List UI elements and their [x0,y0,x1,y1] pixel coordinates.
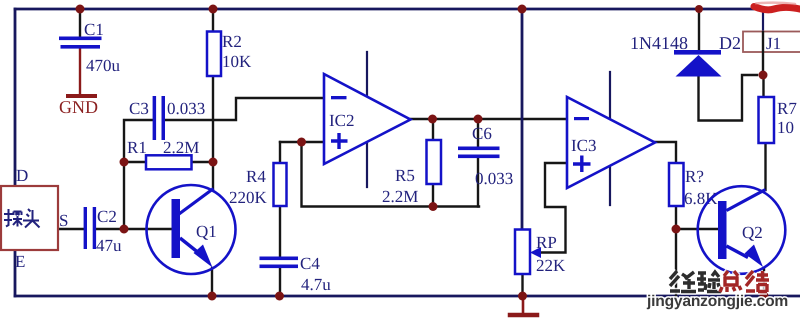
svg-text:R?: R? [685,167,704,186]
wire probe S to C2 [57,228,84,230]
探 glyph [4,209,22,227]
wire R7 top lead [762,75,764,97]
node Q1 emitter rail [208,292,217,301]
node Q1 base [120,225,129,234]
svg-text:0.033: 0.033 [475,169,513,188]
wire R? bottom lead [675,206,677,229]
resistor R7 [759,97,798,143]
wire R5 top lead [432,119,434,140]
svg-text:22K: 22K [536,256,566,275]
svg-text:J1: J1 [766,34,781,53]
wire R7 to Q2 collector [764,143,766,190]
wire R5 bottom lead [432,184,434,207]
resistor R2 [207,32,252,77]
wire R4 top lead [279,142,281,163]
wire feedback from plus input to R5 C6 bottom [302,142,480,207]
node top rail C1 [76,5,85,14]
node IC2 out R5 [428,115,437,124]
wire J1 top lead [762,9,764,31]
capacitor C3 [129,96,205,140]
svg-text:2.2M: 2.2M [382,187,418,206]
transistor Q1 [147,185,236,274]
wire Q1 emitter lead [211,268,213,296]
svg-text:IC2: IC2 [329,111,355,130]
结 [746,271,769,292]
svg-text:2.2M: 2.2M [163,138,199,157]
svg-text:C6: C6 [472,124,492,143]
svg-text:R2: R2 [222,32,242,51]
svg-text:C4: C4 [300,254,320,273]
wire D2 cathode lead [698,9,700,50]
resistor R5 [382,140,441,206]
red annotation mark [754,7,800,10]
node R? Q2 base [672,225,681,234]
op-amp IC2 [324,74,411,164]
wire left rail [14,9,17,296]
wire IC3 power line [609,72,611,205]
transistor Q2 [698,186,786,274]
svg-text:1N4148: 1N4148 [630,33,688,53]
wire C3 right to IC2 inverting input [165,98,324,120]
经 [670,271,696,292]
wire Q2 emitter lead [763,268,765,296]
svg-text:jingyanzongjie.com: jingyanzongjie.com [646,293,788,310]
wire IC3 plus input loop to RP wiper [538,163,567,253]
capacitor C4 [260,254,332,294]
capacitor C2 [84,207,122,255]
svg-text:10: 10 [777,118,794,137]
svg-text:IC3: IC3 [571,136,597,155]
svg-text:R5: R5 [395,166,415,185]
node top rail D2 [695,5,703,13]
connector J1 [743,31,800,75]
probe box 探头 [1,166,68,271]
capacitor C1 [59,20,121,75]
wire C4 bottom lead [279,268,281,296]
svg-text:10K: 10K [222,52,252,71]
wire node down to ground rail [675,229,677,296]
node R1 left [120,158,129,167]
node RP rail [518,292,527,301]
验 [697,272,721,292]
node IC2 out C6 [474,115,483,124]
wire IC2 power line [366,52,368,187]
svg-text:RP: RP [536,233,557,252]
svg-text:S: S [59,211,68,230]
node R1 right [209,158,218,167]
svg-text:Q1: Q1 [196,222,217,241]
wire R2 bottom lead [212,76,214,162]
wire C3 left to R1 left and Q1 base column [124,120,153,229]
ground symbol GND bar [68,94,95,98]
op-amp IC3 [567,97,655,188]
wire R1 left lead [124,161,146,163]
wire C2 to Q1 base [96,228,172,230]
wire Q1 collector lead [212,162,214,190]
svg-text:R7: R7 [777,99,797,118]
node J1 R7 [759,71,768,80]
wire C1 top lead [79,9,81,37]
wire R2 top lead [212,9,214,31]
potentiometer RP [515,230,566,276]
svg-text:GND: GND [59,97,98,117]
resistor R1 [127,138,199,169]
wire R4 bottom lead to C4 [279,206,281,256]
diode D2 1N4148 [630,33,741,77]
resistor R? [669,163,718,208]
node R5 bottom [429,202,438,211]
wire C6 top lead [477,119,479,146]
node C4 rail [275,292,284,301]
svg-text:C2: C2 [97,207,117,226]
svg-text:470u: 470u [86,56,121,75]
node IC2 plus [297,138,306,147]
wire RP bottom lead [521,274,523,296]
svg-text:D: D [16,166,28,185]
wire top supply rail [15,8,766,11]
wire R1 right lead [192,161,213,163]
wire IC2 non-inverting input [280,141,324,143]
wire D2 anode path to R7 node [699,75,758,121]
wire bottom ground rail [15,295,800,298]
svg-text:47u: 47u [96,236,122,255]
头 glyph [23,209,40,228]
wire C1 bottom lead to ground [79,48,81,94]
svg-text:Q2: Q2 [742,223,763,242]
总 [720,271,741,292]
svg-text:4.7u: 4.7u [301,275,331,294]
svg-text:220K: 220K [229,188,268,207]
svg-text:D2: D2 [719,33,741,53]
node top rail RP [518,5,527,14]
svg-text:C1: C1 [84,20,104,39]
watermark 经验总结 [670,271,769,292]
wire IC3 output to R? [655,142,676,163]
svg-text:6.8K: 6.8K [684,189,718,208]
capacitor C6 [458,124,513,188]
svg-text:R4: R4 [246,167,266,186]
svg-text:E: E [15,252,25,271]
node top rail R2 [209,5,218,14]
ground symbol at RP [522,296,525,313]
wire IC2 output to IC3 inverting input [411,118,567,120]
svg-text:0.033: 0.033 [167,99,205,118]
wire C6 bottom lead [477,158,479,207]
wire supply to RP top [521,9,524,229]
node Q2 emitter rail [760,292,769,301]
wire node to Q2 base [676,228,718,230]
svg-text:R1: R1 [127,138,147,157]
resistor R4 [229,163,287,207]
svg-text:C3: C3 [129,99,149,118]
